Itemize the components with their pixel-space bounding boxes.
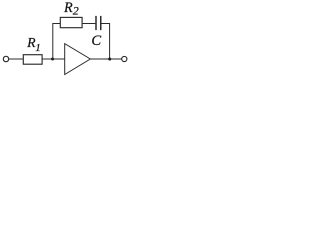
output terminal (right circle): [122, 56, 127, 61]
wire op-amp output: [90, 58, 122, 60]
svg-text:C: C: [91, 33, 101, 49]
svg-text:R: R: [63, 0, 73, 16]
wire R1 to op-amp input: [42, 58, 65, 60]
wire C to feedback riser right: [102, 24, 110, 60]
node A (input junction dot): [51, 58, 54, 61]
wire input to R1: [9, 58, 24, 60]
node B (output junction dot): [108, 57, 111, 60]
capacitor C right plate: [100, 16, 102, 30]
svg-text:2: 2: [73, 4, 79, 18]
capacitor C left plate: [95, 16, 97, 30]
op-amp U1 (triangle): [65, 44, 91, 75]
resistor R1: [23, 55, 42, 64]
wire feedback riser left: [53, 24, 61, 60]
svg-text:1: 1: [35, 42, 41, 54]
resistor R2: [60, 17, 82, 27]
input terminal (left circle): [3, 56, 8, 61]
wire R2 to C: [82, 23, 95, 25]
